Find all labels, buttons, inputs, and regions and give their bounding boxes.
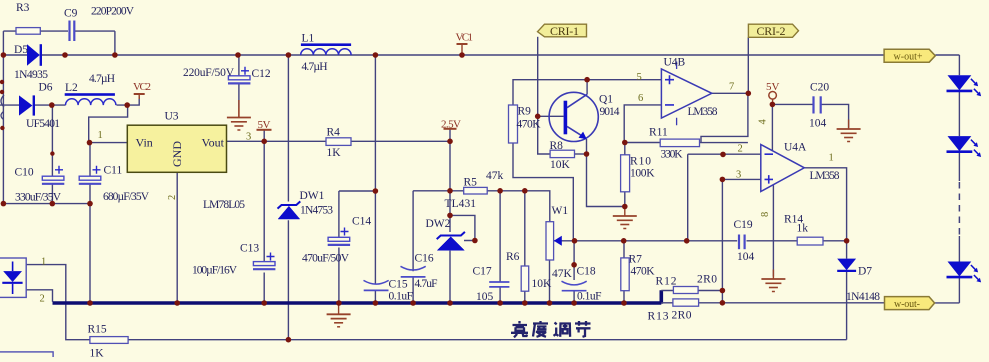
- svg-text:LM358: LM358: [810, 170, 840, 182]
- svg-text:Q1: Q1: [599, 94, 613, 106]
- svg-text:6: 6: [638, 93, 643, 104]
- wire main positive rail: [3, 55, 959, 75]
- node D6 C10: [49, 102, 55, 108]
- svg-text:5V: 5V: [766, 81, 780, 93]
- svg-text:10K: 10K: [532, 278, 553, 290]
- wire pin2 net: [688, 154, 761, 241]
- svg-text:330uF/35V: 330uF/35V: [15, 192, 62, 204]
- svg-text:C10: C10: [15, 167, 34, 179]
- wire 5V circle stem: [772, 99, 774, 104]
- node bus C16: [410, 300, 416, 306]
- wire R5 node: [413, 191, 550, 222]
- svg-text:D6: D6: [39, 82, 53, 94]
- svg-text:1K: 1K: [90, 348, 105, 358]
- node VC1: [459, 52, 465, 58]
- connector J1 opto box: [0, 258, 26, 297]
- svg-text:R15: R15: [88, 324, 107, 336]
- svg-text:R12: R12: [656, 276, 677, 288]
- wire LED dashed segment pattern: [958, 181, 960, 236]
- node C10 bot: [50, 201, 56, 207]
- node bus C14: [336, 300, 342, 306]
- resistor R9: [509, 105, 518, 143]
- svg-text:220uF/50V: 220uF/50V: [183, 67, 235, 79]
- svg-text:C14: C14: [352, 216, 371, 228]
- node emitter R8: [584, 151, 590, 157]
- svg-text:R13: R13: [648, 311, 669, 323]
- node left bot: [1, 201, 7, 207]
- power port VC1: [456, 32, 474, 45]
- diode D6: [19, 95, 34, 115]
- wire 5V port stem to C13: [263, 130, 265, 303]
- power port 2.5V: [441, 119, 461, 131]
- wire L2 junction down to C10: [51, 105, 53, 204]
- node C17 top: [497, 188, 503, 194]
- svg-text:VC2: VC2: [133, 81, 151, 93]
- svg-text:1: 1: [98, 130, 103, 141]
- svg-text:330K: 330K: [661, 149, 684, 161]
- ground bus C15: [327, 305, 351, 327]
- svg-text:CRI-1: CRI-1: [550, 24, 579, 38]
- svg-text:4: 4: [758, 119, 769, 125]
- svg-text:w-out+: w-out+: [894, 51, 923, 62]
- zener DW1: [278, 201, 301, 219]
- potentiometer W1 body: [546, 222, 554, 260]
- wire bus to R12: [661, 291, 673, 303]
- wire R13 right: [699, 302, 723, 304]
- svg-text:1K: 1K: [327, 147, 342, 159]
- svg-text:Vin: Vin: [136, 136, 153, 150]
- node 2.5V port: [447, 139, 453, 145]
- node wiper pin2: [684, 238, 690, 244]
- capacitor C12: [228, 67, 250, 84]
- resistor R14: [797, 237, 823, 245]
- capacitor C15: [364, 280, 389, 290]
- net flag w-out-: [885, 297, 935, 310]
- node left c: [0, 126, 4, 130]
- wire thick ground bus: [53, 290, 662, 304]
- wire R11 left: [625, 142, 660, 144]
- node C14 top: [373, 188, 379, 194]
- node C11 bot: [87, 201, 93, 207]
- ground C12: [227, 108, 251, 130]
- wire C15 branch: [374, 55, 376, 303]
- node D5 out: [62, 52, 68, 58]
- svg-text:D7: D7: [858, 266, 872, 278]
- wire C12 ground stem: [238, 100, 240, 117]
- svg-text:47k: 47k: [486, 170, 504, 182]
- svg-text:R7: R7: [629, 254, 643, 266]
- wire R6 stem: [524, 191, 526, 303]
- svg-text:C11: C11: [104, 165, 123, 177]
- wire 2.5V/DW2/TL431 branch: [449, 129, 451, 303]
- svg-text:R9: R9: [518, 106, 532, 118]
- node collector pin5: [584, 77, 590, 83]
- svg-text:100K: 100K: [630, 168, 655, 180]
- svg-text:0.1uF: 0.1uF: [389, 291, 414, 303]
- wire pin3 net: [722, 179, 760, 302]
- wire VC2 port stem: [138, 94, 140, 99]
- node wiper R7: [621, 238, 627, 244]
- svg-text:TL431: TL431: [445, 198, 477, 210]
- svg-text:2R0: 2R0: [672, 310, 692, 322]
- net flag CRI-2: [748, 24, 798, 38]
- wire LED string bottom: [958, 236, 960, 303]
- node Q1 base: [535, 114, 541, 120]
- LED DL1: [947, 75, 982, 96]
- wire LED string top: [958, 91, 960, 182]
- capacitor C13: [253, 253, 275, 270]
- capacitor C16: [401, 266, 426, 277]
- wire R7 stems: [623, 241, 625, 303]
- op-amp U4B: [661, 62, 711, 126]
- svg-text:1k: 1k: [797, 223, 809, 235]
- node TL431 loop: [472, 238, 478, 244]
- wire U3 Vout 5V rail: [227, 140, 451, 142]
- wire C19 R14 net: [747, 240, 847, 242]
- svg-text:2: 2: [40, 294, 45, 305]
- svg-text:UF5401: UF5401: [26, 118, 60, 130]
- diode D7: [837, 259, 856, 271]
- svg-text:5: 5: [637, 72, 642, 83]
- wire base to R8: [538, 116, 550, 154]
- node pin2 dot: [720, 152, 726, 158]
- svg-text:100µF/16V: 100µF/16V: [192, 265, 238, 277]
- svg-text:9014: 9014: [600, 106, 620, 118]
- wire CRI-2 stem: [747, 37, 749, 93]
- diode D5: [27, 44, 41, 66]
- wire Q1 collector up: [586, 80, 588, 94]
- wire emitter down to R10 gnd: [587, 139, 625, 207]
- svg-text:R5: R5: [464, 177, 478, 189]
- node 5V circle: [770, 102, 776, 108]
- node R15 DW1: [286, 337, 292, 343]
- node C18 mid: [571, 262, 577, 268]
- svg-text:470K: 470K: [517, 119, 542, 131]
- svg-text:C13: C13: [240, 243, 259, 255]
- node bus C11: [87, 300, 93, 306]
- svg-text:GND: GND: [170, 141, 184, 167]
- node left b: [0, 90, 4, 94]
- wire opto pin2 to bus: [26, 290, 52, 302]
- node R6 top: [522, 188, 528, 194]
- svg-text:C16: C16: [415, 253, 434, 265]
- wire R8 right emitter: [575, 153, 587, 155]
- svg-text:2R0: 2R0: [697, 274, 717, 286]
- chinese text brightness adjust: [511, 321, 591, 337]
- wire C12 stem: [238, 55, 240, 108]
- LED DL3: [947, 262, 982, 283]
- resistor R3: [16, 28, 40, 35]
- node main-left: [1, 52, 7, 58]
- wire R3/C9 top branch: [3, 31, 115, 55]
- svg-text:1N4935: 1N4935: [14, 69, 48, 81]
- wire wiper net: [554, 240, 737, 242]
- svg-text:Vout: Vout: [202, 136, 225, 150]
- node bus C13: [261, 300, 267, 306]
- connector J2 box bottom left: [0, 352, 53, 362]
- wire Q1 base: [538, 115, 564, 117]
- node pin3 dot: [720, 177, 726, 183]
- svg-text:2.5V: 2.5V: [441, 119, 461, 131]
- inductor L2: [65, 93, 116, 105]
- node R11 left: [622, 140, 628, 146]
- wire pin7 output: [712, 92, 749, 94]
- capacitor C19: [739, 235, 745, 250]
- wire LED string dashed: [958, 181, 960, 236]
- wire VC2 node to U3 Vin: [89, 105, 128, 303]
- node R12 right: [720, 288, 726, 294]
- wire C16 stem: [412, 191, 414, 303]
- node bus C15: [373, 300, 379, 306]
- wire DW1 branch: [287, 55, 289, 340]
- LED DL2: [947, 136, 982, 157]
- node U3 Vin: [87, 140, 93, 146]
- svg-text:4.7µH: 4.7µH: [89, 73, 115, 85]
- svg-text:C20: C20: [810, 82, 829, 94]
- node L2 out: [124, 102, 130, 108]
- node DW1 tap: [286, 52, 292, 58]
- transistor Q1: [549, 92, 598, 141]
- svg-text:R4: R4: [327, 127, 341, 139]
- capacitor C9: [70, 21, 75, 42]
- svg-text:U4B: U4B: [664, 57, 686, 69]
- inductor L1: [301, 43, 351, 55]
- svg-text:220P200V: 220P200V: [91, 6, 135, 18]
- svg-text:C12: C12: [252, 68, 271, 80]
- net flag CRI-1: [538, 24, 587, 38]
- svg-text:C17: C17: [473, 266, 492, 278]
- svg-text:4.7µH: 4.7µH: [302, 61, 328, 73]
- node R10 gnd: [622, 204, 628, 210]
- svg-text:VC1: VC1: [456, 32, 474, 44]
- svg-text:3: 3: [736, 170, 741, 181]
- svg-text:1N4753: 1N4753: [300, 205, 333, 217]
- wire w-out- net: [722, 302, 959, 304]
- resistor R13: [673, 299, 699, 306]
- node R13 right: [720, 300, 726, 306]
- node bus R7: [621, 300, 627, 306]
- wire R15 long net: [128, 339, 847, 341]
- svg-text:LM358: LM358: [688, 106, 718, 118]
- wire U3 GND pin 2: [176, 172, 178, 303]
- svg-text:L2: L2: [65, 82, 78, 94]
- capacitor C17: [489, 282, 509, 287]
- resistor R7: [621, 258, 629, 291]
- node pin7: [746, 91, 752, 97]
- wire R9 bottom corner: [513, 143, 573, 241]
- wire R12 right: [698, 290, 722, 292]
- node bus W1: [547, 300, 553, 306]
- power port 5V U3: [257, 119, 272, 131]
- ground C20: [837, 120, 861, 142]
- node R5 left: [447, 188, 453, 194]
- capacitor C11: [79, 166, 101, 184]
- connector arcs at left edge: [1, 95, 4, 120]
- resistor R10: [621, 155, 630, 192]
- node TL431 ref: [447, 213, 453, 219]
- node bus DW2: [447, 300, 453, 306]
- svg-text:1: 1: [829, 153, 834, 164]
- net flag w-out+: [884, 49, 935, 62]
- svg-text:W1: W1: [552, 205, 569, 217]
- svg-text:U4A: U4A: [784, 142, 807, 154]
- svg-text:470uF/50V: 470uF/50V: [302, 253, 350, 265]
- wire TL431 ref loop: [450, 215, 475, 240]
- svg-text:104: 104: [809, 118, 827, 130]
- wire C14 stem: [338, 191, 340, 303]
- svg-text:CRI-2: CRI-2: [757, 24, 786, 38]
- svg-text:R8: R8: [550, 140, 564, 152]
- wire left vertical rail: [2, 31, 4, 204]
- node bus R6: [522, 300, 528, 306]
- wire C14 top: [339, 190, 376, 192]
- svg-text:2: 2: [738, 144, 743, 155]
- power port VC2: [133, 81, 151, 94]
- svg-text:680µF/35V: 680µF/35V: [103, 191, 150, 203]
- wire L2 to VC2 corner: [117, 97, 140, 106]
- wire R11 right jog to pin7: [700, 93, 748, 142]
- svg-text:7: 7: [729, 82, 734, 93]
- node 5V port: [261, 139, 267, 145]
- svg-text:R6: R6: [506, 251, 520, 263]
- capacitor C20: [814, 96, 821, 113]
- node R14 right: [844, 238, 850, 244]
- wire LED dashed segment: [958, 182, 960, 236]
- svg-text:C19: C19: [734, 219, 753, 231]
- svg-text:10K: 10K: [550, 159, 571, 171]
- svg-text:R10: R10: [630, 156, 651, 168]
- svg-text:R3: R3: [16, 2, 30, 14]
- svg-text:DW1: DW1: [300, 190, 325, 202]
- resistor R8: [550, 150, 574, 157]
- svg-text:C9: C9: [64, 8, 78, 20]
- svg-text:4.7uF: 4.7uF: [415, 278, 438, 290]
- wire C20 wire: [772, 104, 848, 128]
- svg-text:104: 104: [737, 251, 755, 263]
- ground R10: [613, 207, 637, 229]
- resistor R5: [464, 187, 488, 194]
- wire pin4 stem: [771, 104, 773, 150]
- svg-text:470K: 470K: [631, 266, 656, 278]
- svg-text:3: 3: [246, 132, 251, 143]
- capacitor C18: [562, 281, 587, 291]
- node bus C17: [497, 300, 503, 306]
- node bus C18: [571, 300, 577, 306]
- op-amp U4A: [761, 145, 805, 192]
- svg-text:C15: C15: [389, 279, 408, 291]
- node left a: [0, 80, 4, 84]
- potentiometer W1 wiper arrow: [554, 236, 562, 246]
- svg-text:0.1uF: 0.1uF: [577, 291, 602, 303]
- wire W1 bottom stem: [549, 260, 551, 303]
- wire output to D7: [846, 241, 848, 259]
- svg-text:2: 2: [167, 195, 178, 200]
- resistor R15: [90, 337, 128, 344]
- svg-text:1N4148: 1N4148: [846, 291, 880, 303]
- IC U3 LM78L05 box: [127, 125, 226, 172]
- svg-text:L1: L1: [302, 33, 315, 45]
- wire opto pin1 to R15: [26, 265, 90, 340]
- wire R9 pin5 corner: [513, 80, 661, 105]
- wire VC1 stem: [461, 44, 463, 55]
- svg-text:R11: R11: [649, 127, 668, 139]
- svg-text:47K: 47K: [552, 268, 573, 280]
- node bus U3gnd: [174, 300, 180, 306]
- connector J1 diode symbol: [2, 262, 22, 295]
- ground U4A pin8: [761, 270, 785, 292]
- node C15 tap: [373, 52, 379, 58]
- node C9 join: [112, 52, 118, 58]
- svg-text:105: 105: [476, 291, 494, 303]
- svg-text:1: 1: [41, 257, 46, 268]
- wire D7 down to R15 net: [846, 272, 848, 340]
- zener DW2 TL431: [437, 232, 465, 250]
- node wiper a: [572, 238, 578, 244]
- wire CRI-1 stem: [537, 37, 539, 117]
- resistor R12: [673, 287, 698, 294]
- resistor R4: [326, 138, 351, 146]
- wire C17 stem: [499, 191, 501, 303]
- svg-text:5V: 5V: [258, 119, 271, 131]
- svg-text:DW2: DW2: [426, 218, 451, 230]
- power port 5V circle: [766, 81, 780, 99]
- wire R10 stems: [624, 143, 626, 207]
- wire pin8 stem: [772, 185, 774, 276]
- wire D6 input: [0, 104, 66, 106]
- svg-text:D5: D5: [14, 44, 28, 56]
- svg-text:C18: C18: [577, 266, 596, 278]
- svg-text:w-out-: w-out-: [894, 299, 920, 310]
- node C10 mid: [50, 151, 54, 155]
- svg-text:LM78L05: LM78L05: [203, 199, 245, 211]
- svg-text:U3: U3: [165, 111, 179, 123]
- resistor R11: [660, 139, 699, 147]
- svg-text:8: 8: [760, 212, 771, 217]
- capacitor C14: [328, 228, 350, 245]
- wire U4A output: [804, 168, 846, 241]
- wire C18 stem: [573, 241, 575, 303]
- node C12 tap: [235, 52, 241, 58]
- resistor R6: [521, 266, 529, 291]
- wire C10/C11 bottom: [3, 203, 90, 205]
- capacitor C10: [42, 166, 64, 184]
- wire pin6 corner: [624, 105, 661, 143]
